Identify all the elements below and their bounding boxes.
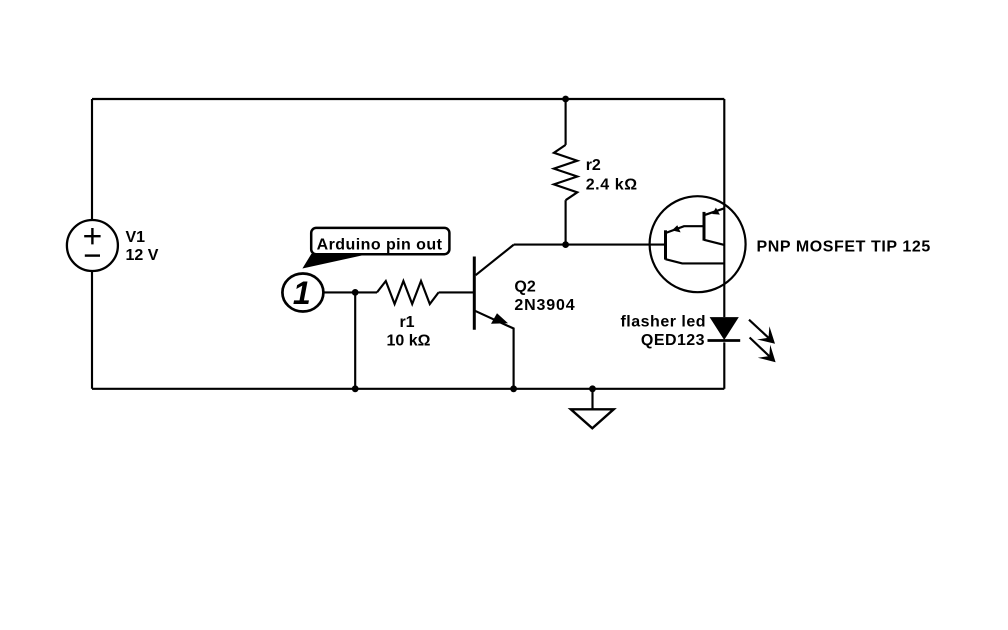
ground symbol xyxy=(571,409,614,428)
junction dot bottom left branch xyxy=(352,385,359,392)
led D1 cathode bar xyxy=(708,339,741,342)
light ray lines xyxy=(749,320,769,338)
svg-text:PNP MOSFET TIP 125: PNP MOSFET TIP 125 xyxy=(757,239,931,256)
svg-text:2N3904: 2N3904 xyxy=(514,297,575,314)
wire left rail upper xyxy=(91,99,93,220)
junction dot top r2 xyxy=(562,96,569,103)
transistor Q2 collector xyxy=(476,245,514,276)
transistor Q2 emitter xyxy=(475,311,514,389)
darlington second base bar xyxy=(703,212,706,241)
darlington output emitter xyxy=(705,208,724,215)
junction dot Q2 emitter bottom xyxy=(510,385,517,392)
wire junction down to bottom rail xyxy=(354,292,356,388)
junction dot r2 bottom xyxy=(562,241,569,248)
darlington first base bar xyxy=(664,230,667,259)
wire top rail xyxy=(92,98,724,100)
darlington U1 circle xyxy=(650,196,746,292)
svg-text:flasher led: flasher led xyxy=(620,314,706,331)
callout Arduino pin out xyxy=(302,228,449,269)
wire led to bottom rail xyxy=(723,342,725,388)
wire right rail xyxy=(723,99,725,317)
svg-text:V1: V1 xyxy=(126,229,146,246)
svg-text:1: 1 xyxy=(293,275,311,311)
svg-text:Arduino pin out: Arduino pin out xyxy=(317,236,443,253)
resistor r2 leads xyxy=(565,99,567,145)
svg-text:r2: r2 xyxy=(586,157,601,174)
light arrow head 2 xyxy=(758,345,776,363)
svg-text:2.4 kΩ: 2.4 kΩ xyxy=(586,176,638,193)
wire collector rail to darlington base xyxy=(514,244,666,246)
junction dot node1 branch xyxy=(352,289,359,296)
wire r1 to Q2 base xyxy=(439,291,474,293)
node 1 circle xyxy=(282,274,323,312)
darlington driver arrow xyxy=(672,225,681,232)
darlington output arrow xyxy=(712,208,720,215)
svg-text:QED123: QED123 xyxy=(641,332,705,349)
wire left rail lower xyxy=(91,271,93,389)
svg-text:r1: r1 xyxy=(399,314,414,331)
darlington driver collector xyxy=(666,259,725,263)
resistor r1 xyxy=(377,281,439,304)
ground stub xyxy=(591,389,593,409)
darlington output collector xyxy=(704,240,724,245)
junction dot ground xyxy=(589,385,596,392)
led D1 triangle xyxy=(710,317,739,340)
wire bottom rail xyxy=(92,388,724,390)
svg-text:Q2: Q2 xyxy=(514,279,535,296)
darlington driver emitter xyxy=(666,226,704,233)
voltage source V1 xyxy=(67,220,118,271)
transistor Q2 emitter arrow xyxy=(491,313,508,324)
transistor Q2 base bar xyxy=(473,257,476,330)
svg-text:10 kΩ: 10 kΩ xyxy=(387,333,431,350)
wire node1 to r1 xyxy=(323,291,377,293)
resistor r2 xyxy=(554,145,577,200)
light arrow head 1 xyxy=(757,326,775,344)
svg-text:12 V: 12 V xyxy=(126,247,159,264)
